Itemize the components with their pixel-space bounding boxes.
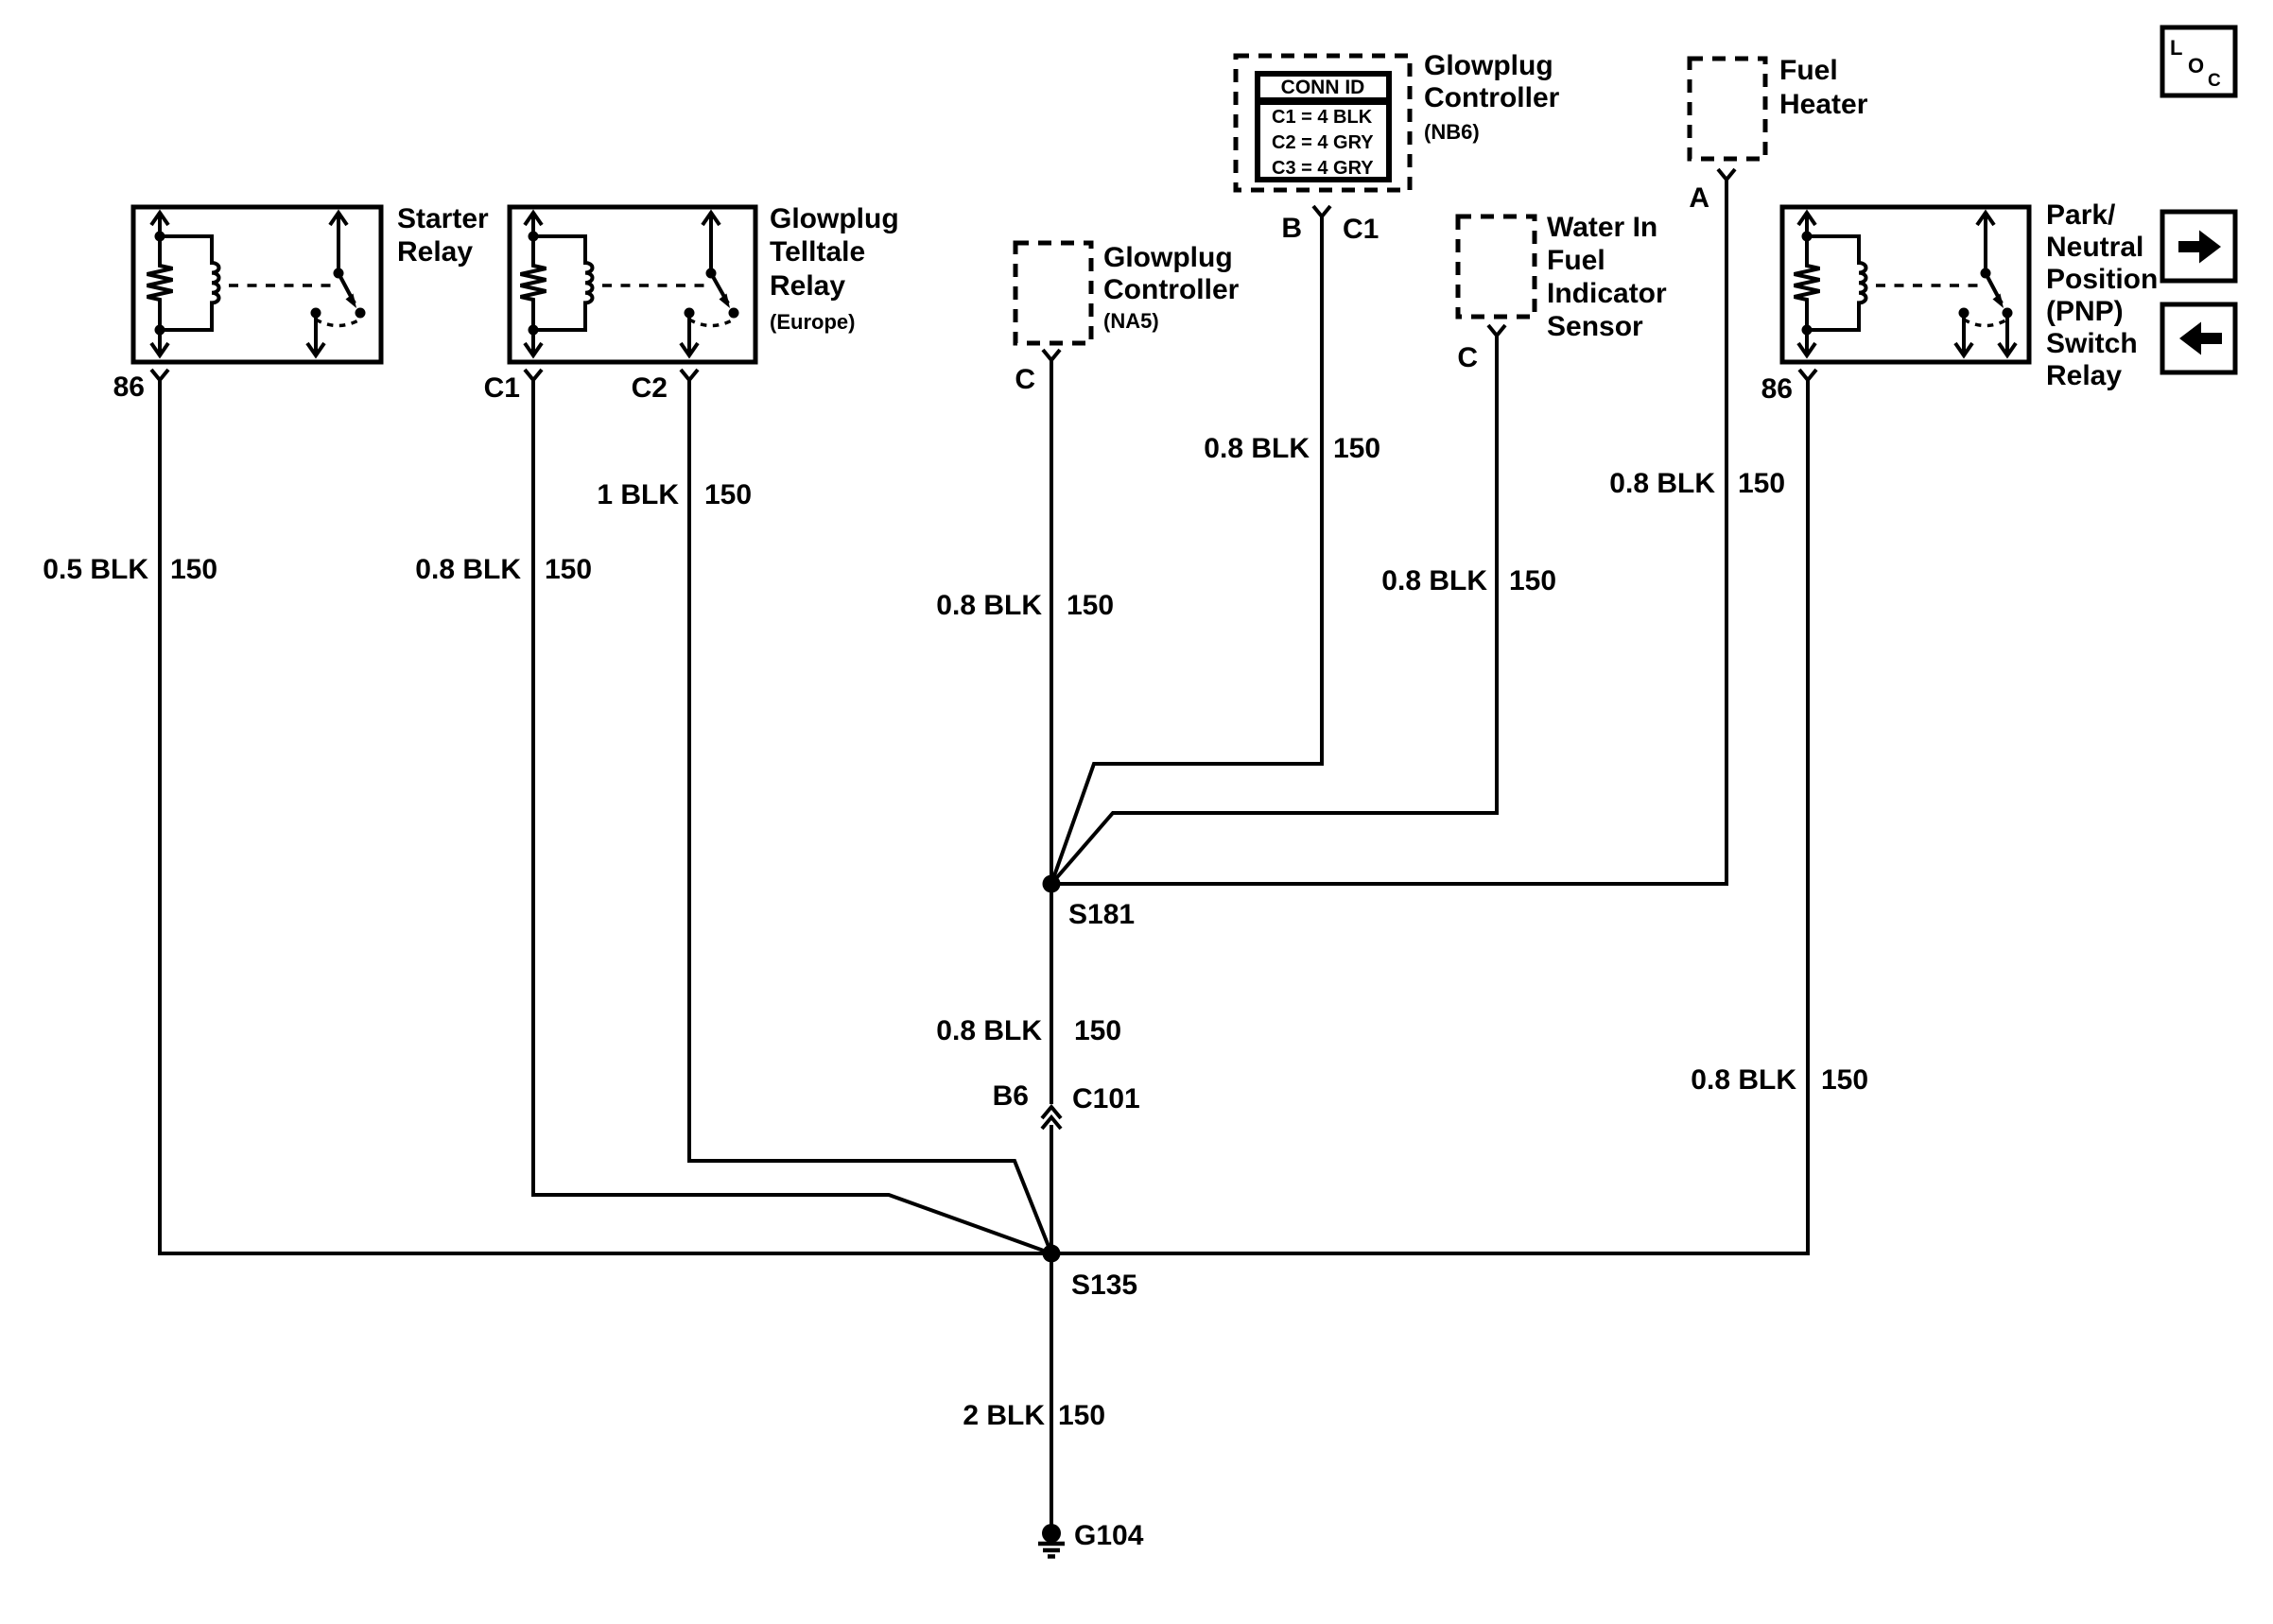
svg-text:Sensor: Sensor bbox=[1547, 311, 1643, 342]
svg-text:(NB6): (NB6) bbox=[1424, 120, 1480, 144]
svg-text:0.8 BLK: 0.8 BLK bbox=[1204, 433, 1310, 464]
svg-text:Telltale: Telltale bbox=[770, 236, 865, 268]
svg-text:C2: C2 bbox=[632, 372, 668, 404]
starter relay switch movable arm bbox=[338, 273, 355, 303]
svg-text:150: 150 bbox=[1738, 468, 1785, 499]
svg-text:S181: S181 bbox=[1068, 899, 1135, 930]
svg-text:G104: G104 bbox=[1074, 1520, 1144, 1551]
svg-text:CONN ID: CONN ID bbox=[1281, 77, 1365, 98]
glowplug telltale relay output contact line and arrow bbox=[681, 313, 698, 356]
svg-text:150: 150 bbox=[1074, 1015, 1121, 1046]
fuel heater pin A terminal fork bbox=[1718, 169, 1735, 180]
svg-text:Neutral: Neutral bbox=[2046, 232, 2143, 263]
svg-text:C1: C1 bbox=[1343, 214, 1379, 245]
svg-text:A: A bbox=[1689, 182, 1709, 214]
svg-text:C: C bbox=[2208, 71, 2221, 91]
wire: PNP 86 to S135 bbox=[1051, 380, 1808, 1253]
svg-text:Fuel: Fuel bbox=[1779, 55, 1838, 86]
svg-text:Glowplug: Glowplug bbox=[1424, 50, 1553, 81]
starter relay coil-side pin line with arrows bbox=[151, 213, 168, 356]
svg-text:Park/: Park/ bbox=[2046, 199, 2116, 231]
starter relay resistor bbox=[147, 236, 173, 330]
glowplug telltale relay switch movable arm bbox=[711, 273, 728, 303]
svg-text:L: L bbox=[2170, 36, 2182, 60]
glowplug telltale relay switch pivot and contact dots bbox=[706, 268, 717, 279]
svg-text:Glowplug: Glowplug bbox=[770, 203, 899, 234]
PNP switch relay coil junction dots bbox=[1802, 232, 1813, 242]
svg-text:Switch: Switch bbox=[2046, 328, 2138, 359]
starter relay coil bbox=[160, 236, 219, 330]
glowplug telltale relay switch common line and arrow bbox=[703, 213, 720, 273]
svg-text:0.8 BLK: 0.8 BLK bbox=[936, 1015, 1042, 1046]
svg-text:(Europe): (Europe) bbox=[770, 310, 855, 334]
svg-text:150: 150 bbox=[1509, 565, 1556, 596]
PNP pin 86 terminal fork bbox=[1799, 370, 1816, 380]
svg-text:Relay: Relay bbox=[2046, 360, 2122, 391]
svg-text:1 BLK: 1 BLK bbox=[597, 479, 679, 510]
PNP switch relay switch common line and arrow bbox=[1977, 213, 1994, 273]
telltale pin C2 terminal fork bbox=[681, 370, 698, 380]
svg-text:0.8 BLK: 0.8 BLK bbox=[1691, 1064, 1796, 1096]
LOC legend box bbox=[2162, 27, 2235, 95]
svg-text:B: B bbox=[1281, 213, 1302, 244]
svg-text:C1: C1 bbox=[484, 372, 520, 404]
svg-text:150: 150 bbox=[1058, 1400, 1105, 1431]
splice S135 bbox=[1043, 1245, 1061, 1263]
wire: NB6 C1-B to S181 bbox=[1051, 216, 1322, 884]
starter relay switch common line and arrow bbox=[330, 213, 347, 273]
svg-text:86: 86 bbox=[113, 371, 145, 403]
svg-text:C2 = 4 GRY: C2 = 4 GRY bbox=[1272, 132, 1374, 153]
svg-text:B6: B6 bbox=[993, 1080, 1029, 1112]
CONN ID header separator bbox=[1258, 97, 1389, 105]
starter relay actuation dashed link bbox=[229, 284, 332, 287]
svg-text:Fuel: Fuel bbox=[1547, 245, 1605, 276]
PNP switch relay resistor bbox=[1795, 236, 1820, 330]
svg-text:Controller: Controller bbox=[1103, 274, 1240, 305]
PNP switch relay coil-side pin line with arrows bbox=[1798, 213, 1815, 356]
glowplug telltale relay box bbox=[510, 207, 755, 362]
svg-text:150: 150 bbox=[1333, 433, 1380, 464]
NA5 pin C terminal fork bbox=[1043, 350, 1060, 360]
fuel heater dashed box bbox=[1690, 59, 1765, 159]
NB6 pin C1-B terminal fork bbox=[1313, 206, 1330, 216]
PNP switch relay switch pivot and contact dots bbox=[1981, 268, 1991, 279]
svg-text:(NA5): (NA5) bbox=[1103, 309, 1159, 333]
glowplug telltale relay contact throw dashed arc bbox=[689, 320, 734, 326]
svg-text:C1 = 4 BLK: C1 = 4 BLK bbox=[1272, 107, 1373, 128]
wire: NA5 C down to S181 bbox=[1050, 360, 1053, 884]
park/neutral position switch relay box bbox=[1782, 207, 2029, 362]
glowplug telltale relay resistor bbox=[521, 236, 547, 330]
glowplug telltale relay coil bbox=[533, 236, 593, 330]
svg-text:C: C bbox=[1457, 342, 1478, 373]
svg-text:S135: S135 bbox=[1071, 1270, 1137, 1301]
svg-text:Glowplug: Glowplug bbox=[1103, 242, 1233, 273]
wire: telltale C2 to S135 bbox=[689, 380, 1051, 1253]
wire: C101 to S135 bbox=[1050, 1125, 1053, 1253]
svg-text:O: O bbox=[2188, 54, 2204, 78]
starter relay box bbox=[133, 207, 381, 362]
wire: S181 to C101 bbox=[1050, 884, 1053, 1104]
svg-text:150: 150 bbox=[704, 479, 752, 510]
svg-text:150: 150 bbox=[1067, 590, 1114, 621]
svg-text:(PNP): (PNP) bbox=[2046, 296, 2124, 327]
splice S181 bbox=[1043, 875, 1061, 893]
svg-text:Heater: Heater bbox=[1779, 89, 1868, 120]
starter relay output contact line and arrow bbox=[307, 313, 324, 356]
telltale pin C1 terminal fork bbox=[525, 370, 542, 380]
svg-text:Controller: Controller bbox=[1424, 82, 1560, 113]
hotlink left-arrow box bbox=[2162, 304, 2235, 372]
svg-text:Water In: Water In bbox=[1547, 212, 1657, 243]
PNP switch relay coil bbox=[1807, 236, 1866, 330]
svg-text:C3 = 4 GRY: C3 = 4 GRY bbox=[1272, 158, 1374, 179]
wire: starter 86 to S135 bbox=[160, 380, 1051, 1253]
PNP switch relay contact throw dashed arc bbox=[1964, 320, 2007, 326]
svg-text:150: 150 bbox=[545, 554, 592, 585]
svg-text:0.5 BLK: 0.5 BLK bbox=[43, 554, 148, 585]
svg-text:C: C bbox=[1015, 364, 1035, 395]
starter relay coil junction dots bbox=[155, 232, 165, 242]
wire: WIF C to S181 bbox=[1051, 336, 1497, 884]
svg-text:150: 150 bbox=[1821, 1064, 1868, 1096]
glowplug controller NA5 dashed box bbox=[1015, 243, 1091, 343]
svg-text:0.8 BLK: 0.8 BLK bbox=[1381, 565, 1487, 596]
svg-text:Relay: Relay bbox=[397, 236, 473, 268]
glowplug telltale relay coil-side pin line with arrows bbox=[525, 213, 542, 356]
starter relay contact throw dashed arc bbox=[316, 320, 360, 326]
svg-text:C101: C101 bbox=[1072, 1083, 1140, 1114]
wire: fuel heater A to S181 bbox=[1051, 180, 1726, 884]
PNP switch relay switch movable arm bbox=[1986, 273, 2002, 303]
PNP switch relay output contact line and arrow bbox=[1955, 313, 2016, 356]
svg-text:Starter: Starter bbox=[397, 203, 489, 234]
glowplug telltale relay actuation dashed link bbox=[602, 284, 704, 287]
water in fuel indicator sensor dashed box bbox=[1458, 216, 1535, 317]
svg-text:0.8 BLK: 0.8 BLK bbox=[1609, 468, 1715, 499]
wire: S135 to G104 bbox=[1050, 1253, 1053, 1525]
svg-text:150: 150 bbox=[170, 554, 217, 585]
svg-text:2 BLK: 2 BLK bbox=[963, 1400, 1045, 1431]
glowplug controller NB6 dashed box bbox=[1236, 56, 1410, 190]
CONN ID table box bbox=[1258, 74, 1389, 180]
starter relay switch pivot and contact dots bbox=[334, 268, 344, 279]
starter pin 86 terminal fork bbox=[151, 370, 168, 380]
ground G104 bbox=[1042, 1524, 1061, 1543]
wire: telltale C1 to S135 bbox=[533, 380, 1051, 1253]
PNP switch relay actuation dashed link bbox=[1876, 284, 1979, 287]
svg-text:86: 86 bbox=[1761, 373, 1793, 405]
connector C101 chevrons bbox=[1042, 1107, 1061, 1129]
svg-text:Position: Position bbox=[2046, 264, 2158, 295]
glowplug telltale relay coil junction dots bbox=[529, 232, 539, 242]
svg-text:0.8 BLK: 0.8 BLK bbox=[936, 590, 1042, 621]
svg-text:0.8 BLK: 0.8 BLK bbox=[415, 554, 521, 585]
hotlink right-arrow box bbox=[2162, 212, 2235, 281]
svg-text:Relay: Relay bbox=[770, 270, 845, 302]
WIF pin C terminal fork bbox=[1488, 325, 1505, 336]
svg-text:Indicator: Indicator bbox=[1547, 278, 1667, 309]
